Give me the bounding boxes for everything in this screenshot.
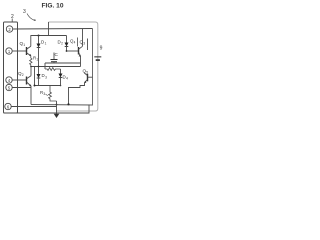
ground stem and arrow [56, 101, 58, 114]
wire: Q1 collector up [30, 36, 32, 47]
wire: terminal 1 to Q1 base [12, 50, 26, 52]
AC source 9 symbol (battery bars) [94, 56, 101, 57]
wire: Q3 collector up to top rail [82, 29, 84, 47]
stray collector wire (Q4) [87, 39, 89, 51]
svg-text:1: 1 [45, 42, 47, 46]
wire: D2 to Q3 base [67, 50, 79, 52]
outer circuit box bottom [4, 105, 90, 114]
wire: rail A to rail B link [44, 63, 46, 69]
transistor Q2 [12, 79, 26, 81]
svg-text:3: 3 [23, 9, 26, 15]
resistor R2 (horizontal) [45, 68, 61, 71]
wire: loop left stub [48, 22, 50, 36]
terminal 2 [6, 26, 12, 32]
diode D4 [60, 69, 62, 74]
wire: mid rail B [31, 66, 81, 68]
diode D3 [38, 67, 40, 75]
resistor R3 (vertical to ground) [49, 86, 57, 102]
svg-text:3: 3 [83, 42, 85, 46]
diode D1 [38, 36, 40, 44]
capacitor C [53, 53, 55, 60]
wire: Q3 emitter down [80, 56, 82, 67]
node: D4 on lower rail [60, 85, 62, 87]
wire: Q2 emitter node down [30, 86, 32, 105]
node: ground at bottom rail [56, 104, 58, 106]
outer AC source loop (gray) [49, 22, 98, 111]
diode D2 [66, 36, 68, 43]
node: staircase to bottom rail [67, 103, 69, 105]
lead arrow for label 3 [27, 14, 35, 21]
svg-text:1: 1 [23, 43, 25, 47]
wire: bridge left leg [34, 67, 36, 86]
svg-text:3: 3 [43, 92, 45, 96]
node: D1 on rail B [38, 66, 40, 68]
terminal 5 [6, 84, 12, 90]
wire: second rail [31, 35, 67, 37]
wire: terminal 5 to Q2 emitter node [12, 87, 31, 89]
svg-text:4: 4 [74, 41, 76, 45]
svg-text:4: 4 [66, 77, 68, 81]
terminal 1 [6, 48, 12, 54]
wire: Q5 emitter staircase down [69, 83, 85, 105]
lead line for label 2 [11, 19, 13, 22]
terminal 6 [5, 103, 11, 109]
svg-text:2: 2 [22, 73, 24, 77]
wire: terminal 6 to ground stem [11, 106, 56, 108]
resistor R1 (vertical, in Q1 emitter leg) [30, 56, 32, 67]
transistor Q1 [26, 47, 28, 55]
svg-text:FIG. 10: FIG. 10 [42, 3, 64, 10]
wire stub left of Q3 label [77, 38, 79, 47]
node: Q2 collector on rail B [30, 66, 32, 68]
wire: lower rail (bridge bottom) [35, 85, 61, 87]
wire: mid rail A [45, 62, 81, 64]
svg-text:3: 3 [45, 75, 47, 79]
inner block box right/bottom (rectifier block) [31, 29, 93, 106]
terminal 4 [6, 77, 12, 83]
transistor Q3 [78, 47, 80, 55]
svg-text:2: 2 [61, 42, 63, 46]
svg-text:9: 9 [100, 45, 103, 51]
node on second rail [38, 35, 40, 37]
terminal box (left) [4, 22, 18, 113]
wire: Q2 collector up to rail B [30, 67, 32, 76]
wire: top rail from terminal 2 [13, 28, 93, 31]
